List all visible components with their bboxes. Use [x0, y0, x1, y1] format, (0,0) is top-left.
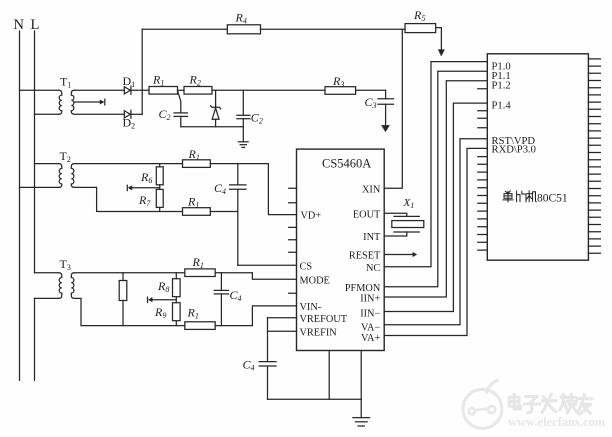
- capacitor C2 first lead: [178, 92, 181, 113]
- wire N vertical line: [19, 31, 21, 380]
- wire VA+ to RXD: [384, 148, 487, 335]
- svg-text:R9: R9: [154, 305, 166, 320]
- svg-text:R1: R1: [192, 255, 204, 270]
- wire R1 to R2: [178, 89, 185, 91]
- pin NC label: [366, 263, 380, 274]
- svg-text:RXD\P3.0: RXD\P3.0: [492, 145, 536, 156]
- wire T1 primary bottom to L: [35, 113, 59, 115]
- capacitor C4 bottom: [267, 318, 269, 362]
- wire EOUT to crystal: [384, 213, 407, 216]
- diode D1: [124, 87, 130, 94]
- wire T3 primary top from L elbow: [35, 272, 59, 274]
- capacitor C2 second lead: [242, 90, 244, 115]
- wire R5 to down arrow: [436, 28, 442, 51]
- wire NC to P1.0: [384, 62, 487, 267]
- wire VREFIN: [268, 330, 297, 332]
- svg-text:MODE: MODE: [300, 275, 330, 286]
- wire D1 to R1: [131, 89, 149, 91]
- resistor R1 T3 top: [185, 269, 215, 277]
- svg-text:C2: C2: [159, 107, 171, 122]
- pin PFMON label: [345, 283, 381, 294]
- resistor R6: [159, 164, 161, 167]
- wire T3 wiper arrow: [152, 299, 176, 301]
- transformer T1 secondary winding: [71, 90, 74, 114]
- svg-text:T2: T2: [60, 149, 71, 164]
- wire D2 to rectifier node: [131, 113, 142, 115]
- ground bottom: [353, 417, 370, 419]
- svg-text:PFMON: PFMON: [345, 283, 381, 294]
- resistor R1 power: [149, 87, 178, 95]
- pin XIN label: [362, 184, 381, 195]
- svg-text:T3: T3: [60, 257, 71, 272]
- pin MODE label: [300, 275, 330, 286]
- node N label: [14, 17, 25, 33]
- capacitor C2 first: [174, 112, 187, 114]
- zener diode: [215, 90, 217, 107]
- pin INT label: [363, 232, 381, 243]
- pin CS label: [300, 261, 313, 272]
- pin VD+ label: [301, 210, 322, 221]
- svg-text:R1: R1: [152, 73, 164, 88]
- pin P1.1 label: [492, 71, 511, 82]
- resistor R1 T3 bottom: [185, 322, 215, 330]
- pin IIN+ label: [360, 294, 380, 305]
- resistor R1 T2 top: [183, 160, 211, 168]
- wire INT to crystal: [384, 232, 407, 236]
- wire T1 center tap arrow: [74, 101, 100, 103]
- svg-text:RESET: RESET: [349, 251, 381, 262]
- wire T2 wiper arrow: [132, 187, 160, 189]
- wire rectifier vertical to top rail: [141, 29, 143, 114]
- wire T1 secondary top to D1: [74, 89, 124, 91]
- pin RXD\P3.0 label: [492, 145, 536, 156]
- wire CS5460A bottom left: [328, 351, 330, 400]
- svg-text:R7: R7: [138, 193, 151, 208]
- resistor R5: [405, 24, 436, 33]
- resistor R2: [184, 87, 212, 95]
- capacitor C2 second: [237, 114, 250, 116]
- wire R3 to C3: [356, 89, 386, 91]
- pin P1.4 label: [492, 100, 512, 111]
- pin VIN- label: [300, 302, 322, 313]
- capacitor C3: [385, 90, 387, 99]
- MCU title CJK dan: [503, 191, 536, 202]
- svg-text:C2: C2: [251, 111, 263, 126]
- pin VA- label: [361, 323, 381, 334]
- svg-text:VD+: VD+: [301, 210, 322, 221]
- wire IIN+ to P1.2: [384, 81, 487, 297]
- wire T3 primary bottom to L elbow: [35, 297, 59, 299]
- wire R2 to R3 rail: [212, 89, 325, 91]
- wire IIN- to P1.4: [384, 103, 487, 311]
- svg-text:INT: INT: [363, 232, 381, 243]
- wire RESET arrow: [384, 254, 413, 256]
- watermark CJK text: [509, 394, 592, 414]
- watermark www.elecfans.com: [508, 415, 606, 429]
- transformer T3 label: [60, 257, 71, 272]
- wire T2 primary bottom to N: [20, 186, 59, 188]
- svg-text:VREFIN: VREFIN: [300, 327, 338, 338]
- wire T3 bottom to VIN- corner: [215, 306, 296, 326]
- transformer T3 secondary winding: [71, 273, 74, 299]
- resistor R9: [175, 297, 177, 303]
- wire C4 node to CS pin: [238, 264, 297, 266]
- svg-text:NC: NC: [366, 263, 380, 274]
- transformer T2 label: [60, 149, 71, 164]
- wire bottom rail: [268, 398, 362, 400]
- svg-text:R1: R1: [188, 147, 200, 162]
- svg-text:R1: R1: [187, 306, 199, 321]
- svg-text:VA+: VA+: [361, 333, 381, 344]
- wire VA- to RST: [384, 139, 487, 325]
- MCU 80C51 box: [487, 54, 588, 260]
- transformer T2 primary winding: [59, 164, 62, 188]
- MCU title CJK ji: [527, 191, 536, 202]
- svg-text:R1: R1: [187, 195, 199, 210]
- transformer T1 primary winding: [59, 90, 62, 114]
- wire T2 primary top from L: [35, 163, 59, 165]
- resistor R3: [325, 87, 356, 95]
- wire L vertical line upper: [34, 31, 36, 273]
- pin IIN- label: [360, 309, 380, 320]
- svg-text:C4: C4: [243, 358, 255, 373]
- svg-text:EOUT: EOUT: [353, 209, 381, 220]
- svg-text:XIN: XIN: [362, 184, 381, 195]
- pin EOUT label: [353, 209, 381, 220]
- wire T2 bottom to C4 node: [210, 211, 238, 213]
- svg-text:R4: R4: [235, 11, 247, 26]
- svg-text:IIN+: IIN+: [360, 294, 380, 305]
- wire T1 secondary bottom to D2: [74, 113, 124, 115]
- MCU title CJK pian: [517, 191, 526, 202]
- MCU left stubs: [478, 89, 488, 128]
- capacitor C4 T3: [220, 273, 222, 291]
- wire top rail left segment: [142, 28, 227, 30]
- wire power bottom rail: [181, 126, 244, 128]
- wire PFMON to P1.1: [384, 71, 487, 287]
- wire top rail middle segment: [261, 28, 406, 30]
- svg-text:R8: R8: [157, 279, 169, 294]
- resistor R8: [175, 273, 177, 279]
- svg-text:D1: D1: [123, 74, 136, 89]
- svg-text:R5: R5: [413, 8, 425, 23]
- resistor R1 T2 bottom: [183, 208, 211, 216]
- wire L vertical line lower: [34, 298, 36, 380]
- svg-text:CS5460A: CS5460A: [322, 157, 371, 171]
- wire VREFOUT: [268, 317, 297, 319]
- svg-text:T1: T1: [60, 75, 71, 90]
- wire T3 secondary bottom jog: [74, 298, 185, 325]
- svg-text:VREFOUT: VREFOUT: [300, 314, 348, 325]
- svg-text:R2: R2: [189, 73, 201, 88]
- transformer T3 primary winding: [59, 273, 62, 299]
- svg-text:CS: CS: [300, 261, 313, 272]
- svg-text:C3: C3: [365, 95, 377, 110]
- pin P1.0 label: [492, 62, 511, 73]
- wire T2 secondary top rail: [74, 163, 182, 165]
- crystal X1: [394, 215, 419, 217]
- svg-text:P1.2: P1.2: [492, 81, 511, 92]
- node L label: [31, 17, 40, 33]
- transformer T1 label: [60, 75, 71, 90]
- svg-text:C4: C4: [214, 181, 226, 196]
- svg-text:IIN−: IIN−: [360, 309, 380, 320]
- svg-text:80C51: 80C51: [537, 192, 568, 204]
- wire T1 primary top from N: [20, 89, 59, 91]
- wire CS5460A bottom right to ground: [360, 351, 362, 418]
- op-amp U1 CS5460A box: [297, 149, 385, 350]
- MCU right stubs: [588, 59, 600, 153]
- pin VREFIN label: [300, 327, 338, 338]
- resistor unlabeled T3: [122, 273, 124, 281]
- svg-text:D2: D2: [123, 116, 136, 131]
- svg-text:P1.4: P1.4: [492, 100, 512, 111]
- ground power section: [238, 141, 248, 143]
- CS5460A left stubs: [289, 188, 297, 293]
- wire T3 secondary top rail: [74, 272, 185, 274]
- wire T2 top to VD+ corner: [210, 164, 296, 215]
- pin P1.2 label: [492, 81, 511, 92]
- pin RESET label: [349, 251, 381, 262]
- resistor R4: [227, 25, 260, 34]
- svg-text:www.elecfans.com: www.elecfans.com: [508, 415, 606, 429]
- svg-text:C4: C4: [230, 288, 242, 303]
- capacitor C4 T2: [237, 164, 239, 185]
- wire T2 secondary bottom jog: [74, 187, 182, 211]
- ground arrow below C3: [382, 125, 390, 131]
- svg-text:R3: R3: [332, 74, 344, 89]
- svg-text:X1: X1: [403, 197, 415, 210]
- resistor R7: [159, 185, 161, 190]
- pin RST\VPD label: [492, 136, 536, 147]
- svg-text:VIN-: VIN-: [300, 302, 322, 313]
- pin VA+ label: [361, 333, 381, 344]
- wire T3 top to MODE corner: [215, 273, 296, 280]
- wire XIN to top rail: [384, 29, 402, 188]
- MCU title 80C51: [537, 192, 568, 204]
- transformer T2 secondary winding: [71, 164, 74, 188]
- diode D2: [124, 111, 130, 118]
- watermark elecfans logo: [463, 381, 502, 429]
- svg-text:R6: R6: [140, 170, 152, 185]
- pin VREFOUT label: [300, 314, 348, 325]
- svg-text:VA−: VA−: [361, 323, 381, 334]
